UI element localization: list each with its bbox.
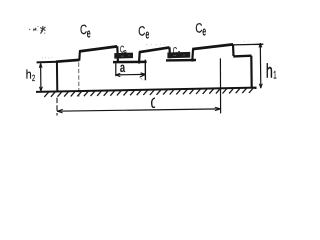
gap A baseline [113, 61, 147, 64]
extension line under bump1 left edge [78, 62, 80, 96]
svg-text:e: e [202, 24, 206, 39]
svg-text:e: e [145, 26, 149, 41]
label Ce small A [120, 45, 127, 59]
dimension l [57, 58, 221, 115]
base slab top segment left [56, 60, 79, 62]
svg-text:C: C [80, 22, 87, 37]
small bump B (dark body) [167, 52, 190, 58]
label h1 [266, 60, 277, 82]
label Ce big 1 [80, 22, 91, 40]
svg-text:2: 2 [32, 73, 35, 83]
base slab top segment right [233, 55, 251, 58]
svg-text:a: a [120, 59, 125, 75]
dimension h1 [233, 43, 263, 88]
base slab right edge [250, 56, 253, 88]
smudge artifact top-left [29, 26, 39, 32]
small bump A (dark body) [114, 53, 133, 59]
label Ce big 3 [195, 20, 206, 38]
svg-text:1: 1 [273, 70, 276, 82]
label Ce big 2 [138, 23, 149, 41]
dimension a [116, 60, 146, 81]
svg-text:e: e [87, 25, 91, 40]
scan speckles [42, 41, 249, 81]
ground line [36, 88, 257, 92]
label l [152, 98, 155, 108]
label Ce small B [173, 46, 181, 59]
dimension h2 [37, 62, 57, 91]
gap B baseline [166, 59, 196, 62]
label a [120, 59, 125, 75]
electrode bump 3 [192, 44, 233, 61]
svg-text:C: C [195, 20, 202, 35]
electrode bump 2 [139, 47, 170, 63]
base slab left edge [56, 62, 58, 93]
svg-text:C: C [138, 23, 145, 38]
svg-text:h: h [266, 60, 273, 82]
label h2 [26, 68, 36, 84]
svg-text:h: h [26, 68, 32, 82]
electrode bump 1 [79, 46, 118, 61]
ground hatching [44, 88, 253, 97]
